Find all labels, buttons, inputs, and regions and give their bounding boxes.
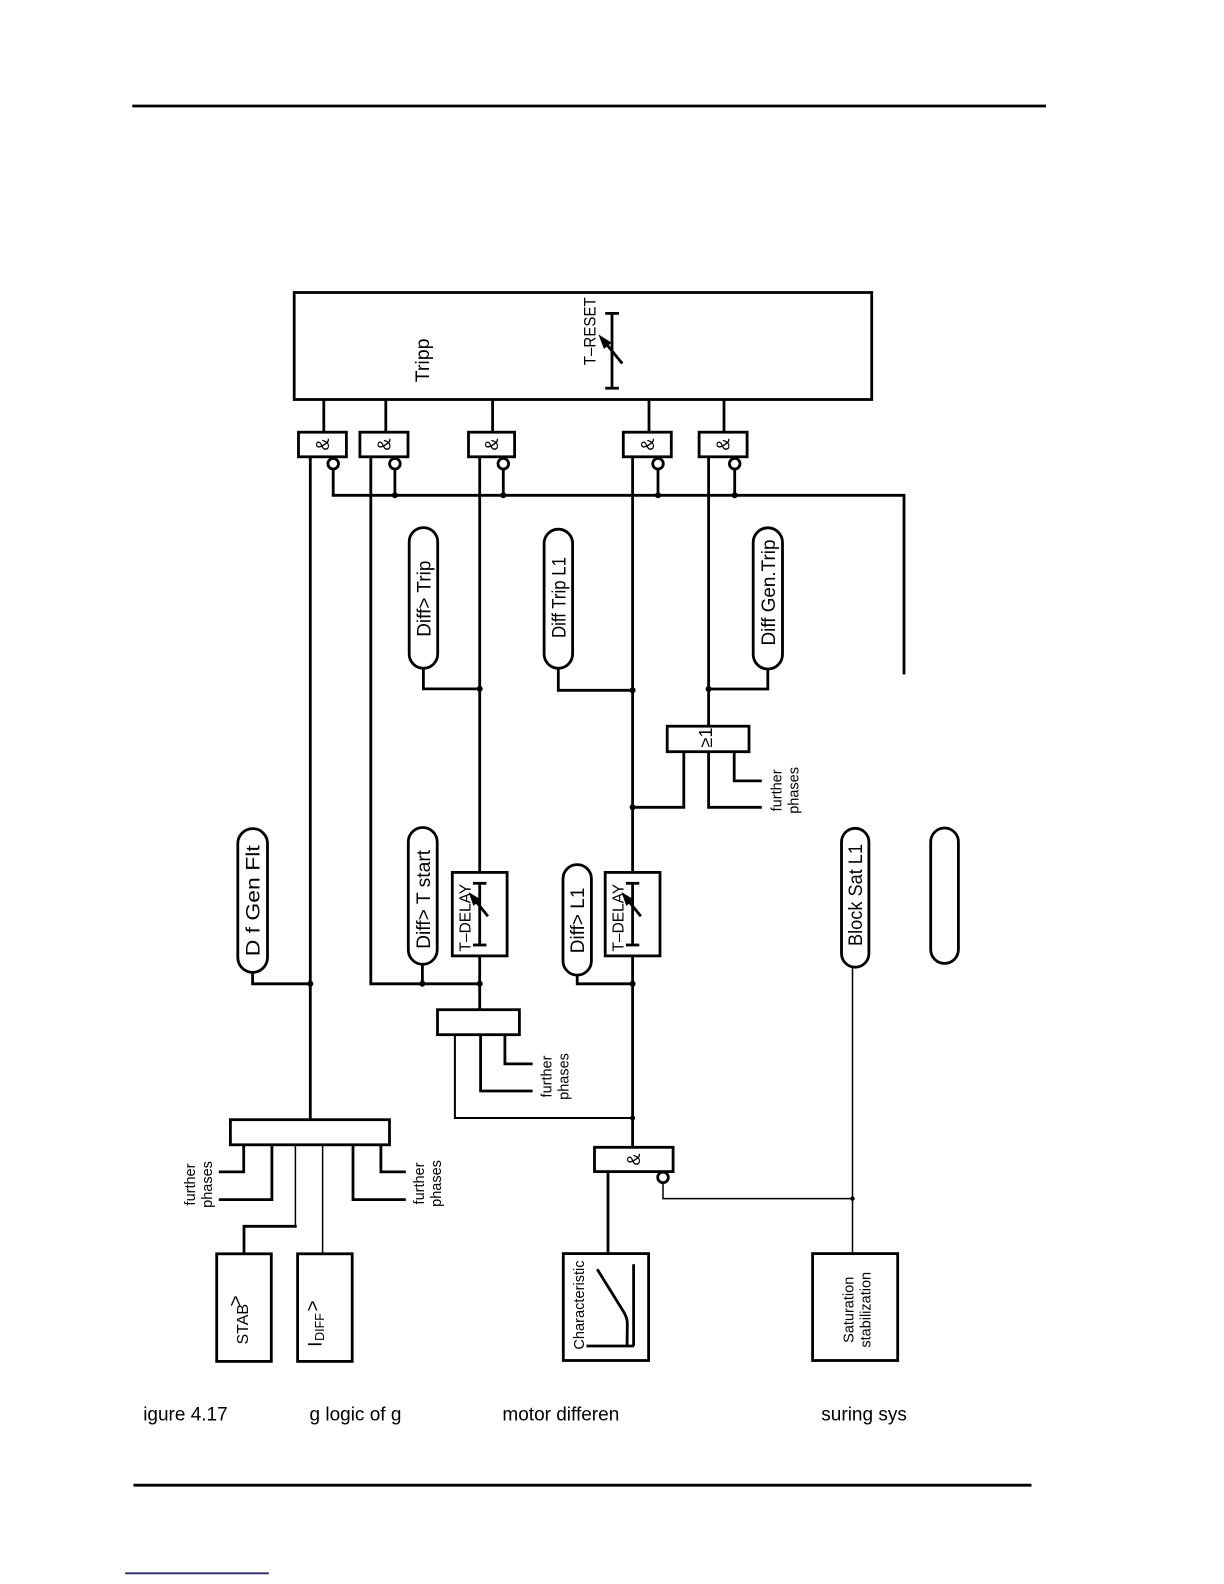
wire U1 input <box>309 457 312 1120</box>
label T-RESET <box>580 297 599 365</box>
collector box main <box>230 1120 389 1145</box>
wire Diff Trip L1 stem <box>558 668 632 690</box>
wire main stub E <box>353 1145 406 1200</box>
svg-text:phases: phases <box>787 767 803 814</box>
node Diff Trip L1 junction <box>630 687 636 693</box>
svg-text:motor differen: motor differen <box>502 1405 619 1426</box>
wire U5 input <box>707 457 710 726</box>
wire or input mid <box>709 752 762 808</box>
svg-text:&: & <box>714 438 734 450</box>
collector box L1 phases <box>438 1010 520 1035</box>
signal tag blank <box>931 828 959 963</box>
timer T-DELAY 1 <box>452 872 507 956</box>
wire D f Gen Flt stem <box>253 972 311 983</box>
node Diff Gen.Trip junction <box>706 686 712 692</box>
wire U3 input <box>478 457 481 1010</box>
svg-text:further: further <box>769 769 785 811</box>
svg-text:Diff> Trip: Diff> Trip <box>414 561 435 637</box>
svg-text:Characteristic: Characteristic <box>572 1260 588 1349</box>
svg-text:>: > <box>303 1300 324 1311</box>
wire Diff Gen.Trip stem <box>709 669 768 689</box>
label Tripp <box>412 338 434 382</box>
and gate lower <box>595 1147 674 1171</box>
wire and lower left pin <box>607 1172 610 1254</box>
svg-text:Saturation: Saturation <box>841 1277 857 1343</box>
wire inhibit bus <box>333 469 904 675</box>
svg-text:suring sys: suring sys <box>821 1405 907 1426</box>
wire collector stub left <box>455 1035 633 1118</box>
node D f Gen Flt junction <box>307 981 313 987</box>
pin U2 top <box>384 400 387 433</box>
top rule <box>132 105 1046 108</box>
svg-text:&: & <box>313 438 333 450</box>
svg-text:Tripp: Tripp <box>412 338 434 382</box>
signal tag Block Sat L1 <box>842 828 869 967</box>
and gate U3 <box>469 432 515 457</box>
pin U1 top <box>322 400 325 433</box>
pin U5 top <box>723 400 726 433</box>
wire Diff> Trip stem <box>423 668 479 689</box>
svg-text:&: & <box>638 438 658 450</box>
wire U4 input <box>631 457 634 1148</box>
wire main stub A <box>219 1145 244 1172</box>
and gate U2 <box>360 432 408 457</box>
svg-text:further: further <box>183 1163 199 1205</box>
svg-text:>: > <box>226 1295 247 1306</box>
and gate U1 <box>299 432 347 457</box>
and gate U5 <box>699 432 747 457</box>
svg-text:&: & <box>624 1153 644 1165</box>
pin U4 top <box>648 400 651 433</box>
wire Diff> T start stem <box>421 964 424 984</box>
wire and lower bubble to saturation <box>663 1183 853 1199</box>
box saturation stabilization <box>813 1254 898 1361</box>
wire main stub F <box>381 1145 406 1172</box>
node saturation junction <box>850 1196 854 1200</box>
signal tag D f Gen Flt <box>238 829 268 973</box>
svg-text:T–DELAY: T–DELAY <box>610 884 627 952</box>
inverter bubble U3 <box>498 458 509 495</box>
label saturation stabilization <box>841 1272 874 1348</box>
signal tag Diff> Trip <box>409 528 438 669</box>
svg-text:&: & <box>374 438 394 450</box>
signal tag Diff Trip L1 <box>544 529 573 668</box>
svg-text:T–RESET: T–RESET <box>580 297 599 365</box>
wire collector stub right <box>505 1035 533 1064</box>
wire or input right <box>734 752 762 781</box>
timer symbol T-DELAY1 <box>471 883 488 945</box>
svg-text:Block Sat L1: Block Sat L1 <box>846 844 867 946</box>
svg-text:further: further <box>412 1162 428 1204</box>
wire main stub D to IDIFF <box>322 1145 324 1254</box>
timer symbol T-RESET <box>601 313 622 388</box>
svg-text:Diff Trip L1: Diff Trip L1 <box>549 557 570 638</box>
svg-text:phases: phases <box>557 1053 573 1100</box>
caption fragment 2 <box>310 1405 402 1426</box>
signal tag Diff> L1 <box>563 865 591 976</box>
label further phases (collector L1) <box>540 1053 573 1100</box>
node Diff> T start junction <box>419 981 425 987</box>
caption fragment 1 <box>143 1405 228 1426</box>
svg-text:D f Gen Flt: D f Gen Flt <box>244 844 265 956</box>
characteristic axes <box>587 1264 635 1346</box>
svg-text:T–DELAY: T–DELAY <box>458 884 475 952</box>
characteristic curve <box>597 1269 627 1345</box>
svg-text:phases: phases <box>200 1161 216 1208</box>
inverter bubble U1 <box>328 458 339 469</box>
svg-text:g logic of g: g logic of g <box>310 1405 402 1426</box>
caption fragment 3 <box>502 1405 619 1426</box>
inverter bubble U4 <box>653 458 664 495</box>
box I DIFF <box>298 1254 353 1362</box>
node Diff> L1 junction <box>630 981 636 987</box>
wire Diff> L1 stem <box>577 975 632 984</box>
svg-text:phases: phases <box>429 1160 445 1207</box>
trip matrix box <box>294 293 872 400</box>
node or input left junction <box>630 804 636 810</box>
svg-text:further: further <box>540 1055 556 1097</box>
svg-text:I: I <box>306 1342 327 1347</box>
caption fragment 4 <box>821 1405 907 1426</box>
wire Block Sat L1 to saturation <box>852 967 854 1253</box>
node bus-U4 <box>655 492 661 498</box>
box STAB <box>217 1254 272 1362</box>
and gate U4 <box>623 432 671 457</box>
signal tag Diff> T start <box>408 828 437 965</box>
wire or input left <box>633 752 684 808</box>
wire collector stub mid <box>481 1035 533 1091</box>
wire main stub B <box>219 1145 272 1200</box>
svg-text:stabilization: stabilization <box>858 1272 874 1348</box>
signal tag Diff Gen.Trip <box>753 528 782 669</box>
wire U2 input <box>371 457 480 984</box>
bottom rule <box>134 1484 1032 1487</box>
inverter bubble U2 <box>390 458 401 495</box>
footnote underline (navy) <box>125 1572 269 1574</box>
timer symbol T-DELAY2 <box>624 883 641 945</box>
node bus-U5 <box>732 492 738 498</box>
svg-text:≥1: ≥1 <box>696 728 716 748</box>
box characteristic <box>563 1254 648 1361</box>
pin U3 top <box>491 400 494 433</box>
inverter bubble and lower <box>658 1172 669 1183</box>
wire main stub C to STAB <box>244 1145 297 1254</box>
label further phases (main right) <box>412 1160 445 1207</box>
node collector-to-and junction <box>630 1116 635 1121</box>
svg-text:DIFF: DIFF <box>313 1313 327 1341</box>
svg-text:STAB: STAB <box>235 1304 252 1345</box>
node T-DELAY1 top junction <box>477 981 483 987</box>
node Diff> Trip junction <box>477 686 483 692</box>
svg-text:Diff Gen.Trip: Diff Gen.Trip <box>759 540 780 646</box>
svg-text:igure 4.17: igure 4.17 <box>143 1405 228 1426</box>
svg-text:Diff> T start: Diff> T start <box>414 849 435 949</box>
svg-text:&: & <box>482 438 502 450</box>
inverter bubble U5 <box>729 458 740 495</box>
label further phases (or gate) <box>769 767 802 814</box>
or gate >=1 <box>667 726 749 752</box>
node bus-U3 <box>500 492 506 498</box>
node bus-U2 <box>392 492 398 498</box>
label further phases (main left) <box>183 1161 216 1208</box>
timer T-DELAY 2 <box>605 872 660 956</box>
svg-text:Diff> L1: Diff> L1 <box>568 888 589 954</box>
